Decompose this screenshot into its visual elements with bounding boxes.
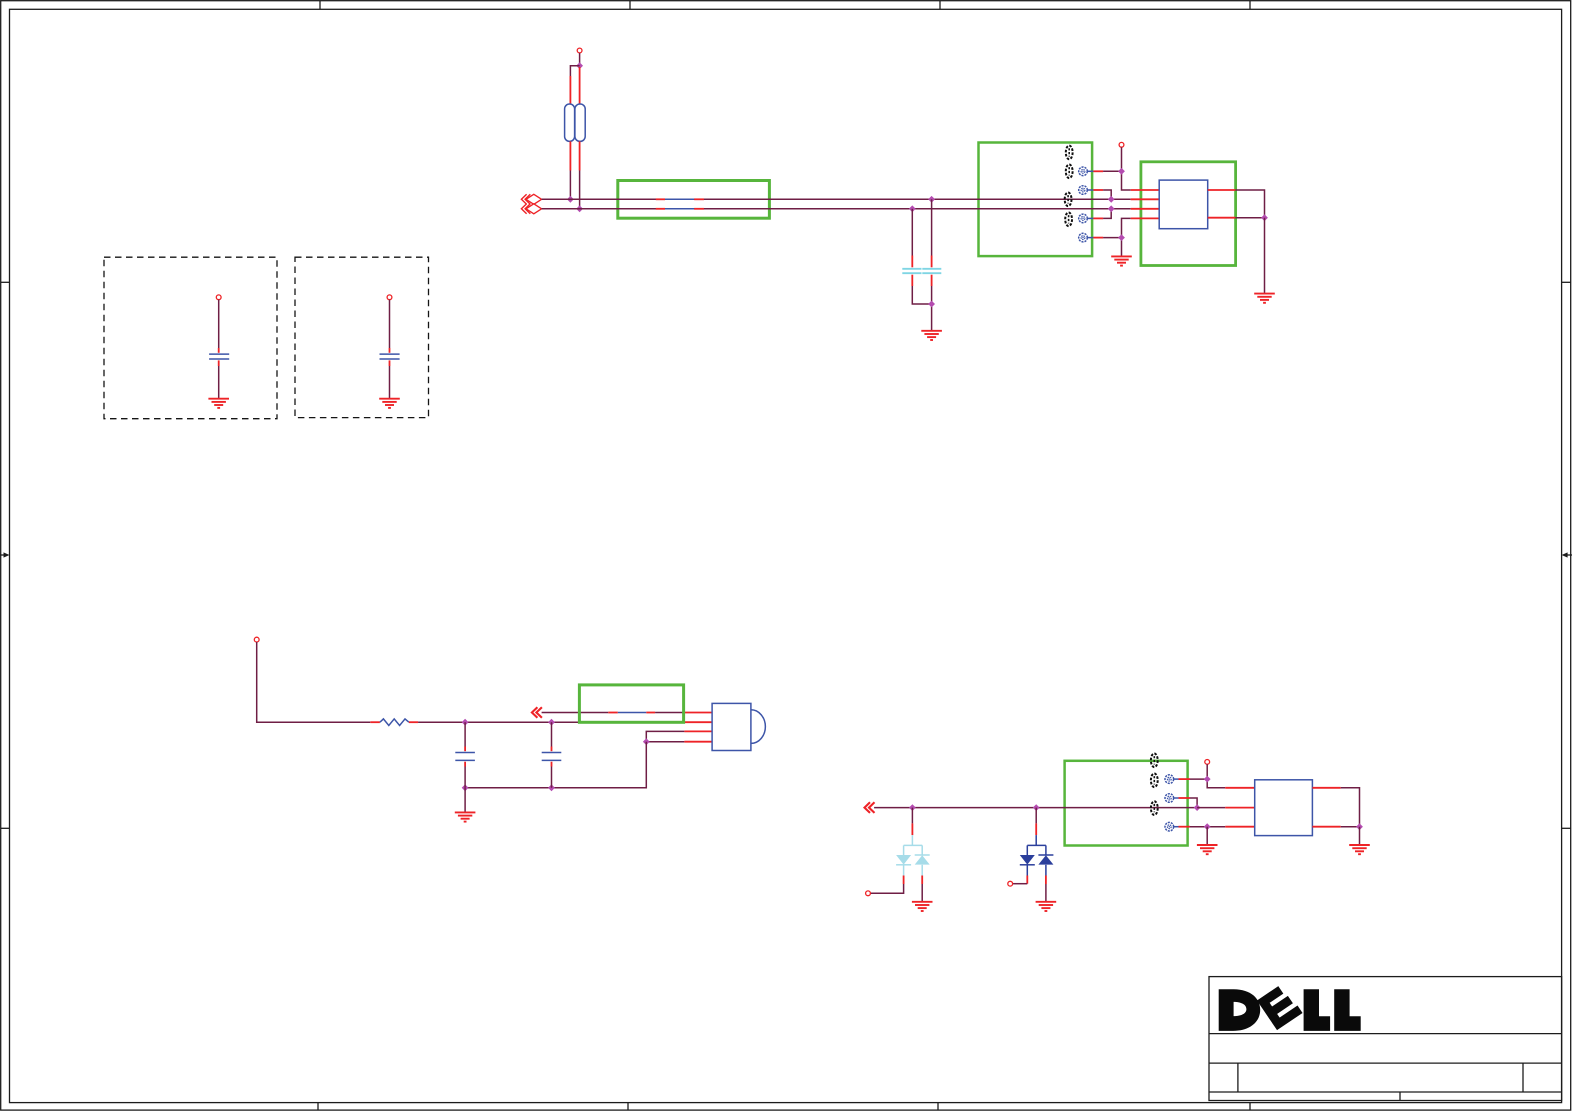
red lead PC5: [1179, 778, 1191, 780]
zone tick top 4: [1249, 1, 1251, 10]
ground G3: [1254, 294, 1275, 303]
wire PC1 to power rail: [1103, 170, 1121, 172]
capacitor C4 stem: [551, 722, 553, 746]
wire P3 to resistor: [257, 642, 371, 722]
capacitor C1 plates: [902, 268, 921, 270]
resistor RP1b body: [665, 208, 694, 210]
wire to ground G4: [464, 788, 466, 813]
zone tick bottom 4: [1249, 1103, 1251, 1111]
ground G5: [912, 902, 933, 911]
wire bus lower: [874, 807, 1197, 809]
dashed ellipse E4: [1065, 213, 1072, 227]
capacitor C6 plates: [380, 353, 400, 355]
title block line 3: [1209, 1091, 1562, 1093]
green box A (resistor pack): [618, 181, 770, 219]
red lead Q1 pin1: [684, 712, 712, 714]
capacitor C4 plates: [542, 752, 562, 754]
capacitor C3 plates: [455, 752, 475, 754]
node junction J16: [548, 784, 555, 791]
red lead IC1 pin4: [1131, 217, 1160, 219]
power symbol P2: [1119, 142, 1124, 147]
capacitor C1 red lead bottom: [911, 275, 913, 286]
diode D1a bottom lead: [903, 865, 905, 876]
pin circle PC2: [1079, 186, 1094, 195]
wire U1 right pin2: [1235, 217, 1264, 219]
ground G-C6: [379, 399, 400, 408]
dashed ellipse E6: [1151, 774, 1158, 788]
capacitor C3 red lead bottom: [464, 762, 466, 767]
zone tick left upper: [1, 281, 10, 283]
red lead Q1 pin4: [684, 741, 712, 743]
dashed box DNI-2: [295, 257, 429, 417]
capacitor C4 red lead bottom: [551, 762, 553, 767]
wire gnd rail vertical: [1122, 218, 1131, 256]
wire J21 to ground: [1206, 827, 1208, 845]
node junction J13: [548, 719, 555, 726]
zone tick left lower: [1, 827, 10, 829]
IC U2: [1255, 780, 1313, 836]
diode D2b: [1038, 855, 1053, 865]
pin circle PC4: [1079, 233, 1094, 242]
off-page connector OP2: [521, 204, 541, 214]
capacitor C3 stem: [464, 722, 466, 746]
diode D1a: [896, 855, 911, 865]
node junction J14: [643, 738, 650, 745]
resistor pack RP1a red lead right: [694, 198, 704, 200]
wire D1a to stub: [870, 884, 903, 893]
red lead PC2: [1093, 189, 1103, 191]
node junction J5: [909, 205, 916, 212]
center arrow right: [1562, 552, 1572, 557]
red lead Q1 pin3: [684, 730, 712, 732]
wire bus to IC2 pin2: [1197, 807, 1225, 809]
zone tick top 2: [629, 1, 631, 10]
power symbol P4: [1205, 760, 1210, 765]
TVS D2 stem red: [1035, 823, 1037, 835]
zone tick bottom 2: [627, 1103, 629, 1111]
node junction J2: [567, 196, 574, 203]
node junction J10: [1118, 234, 1125, 241]
resistor pack RP1b red lead right: [694, 208, 704, 210]
wire PC6 down to bus: [1190, 798, 1197, 808]
capacitor C3 red lead: [464, 747, 466, 752]
red lead U1 right pin2: [1208, 217, 1236, 219]
zone tick right lower: [1562, 827, 1571, 829]
red lead PC7: [1179, 826, 1191, 828]
zone tick bottom 3: [937, 1103, 939, 1111]
ground G-C5: [208, 399, 229, 408]
red lead IC1 pin1: [1131, 189, 1160, 191]
capacitor C2 stem: [931, 199, 933, 255]
wire OP3 to resistor pack: [542, 712, 609, 714]
dashed ellipse E5: [1151, 754, 1158, 768]
wire C5 bottom: [218, 366, 220, 399]
red lead U2 right pin2: [1312, 826, 1340, 828]
pin circle PC3: [1079, 214, 1094, 223]
wire P4 rail: [1207, 764, 1225, 788]
resistor R1: [380, 719, 409, 726]
red lead PC1: [1093, 170, 1103, 172]
wire bottom rail: [465, 742, 646, 788]
zone tick bottom 1: [317, 1103, 319, 1111]
Dell logo: [1219, 983, 1361, 1031]
resistor pack RP1b red lead: [656, 208, 665, 210]
resistor pack RP1a red lead: [656, 198, 665, 200]
TVS D1 stem: [911, 808, 913, 824]
resistor RP1a body: [665, 198, 694, 200]
capacitor C2 red lead: [931, 256, 933, 268]
capacitor C4 red lead: [551, 747, 553, 752]
fuse F1 capsule: [565, 104, 575, 141]
wire C6 top: [389, 300, 391, 348]
wire PC7 rail: [1190, 826, 1225, 828]
node junction J17: [909, 804, 916, 811]
fuse F2 capsule: [575, 104, 585, 141]
stub terminal T2: [1008, 881, 1013, 886]
pin circle PC5: [1165, 775, 1179, 784]
node junction J11: [1261, 214, 1268, 221]
node junction J20: [1204, 776, 1211, 783]
wire PC4 to gnd rail: [1103, 237, 1121, 239]
wire FB2 to bus2: [579, 171, 581, 209]
red lead C6 bottom: [389, 360, 391, 366]
dashed box DNI-1: [104, 257, 277, 419]
ground G4: [455, 812, 476, 821]
title block bottom strip divider: [1399, 1092, 1401, 1101]
TVS D2 stem: [1035, 808, 1037, 824]
title block line 2: [1209, 1062, 1562, 1064]
green box B (connector block): [979, 143, 1093, 257]
pin circle PC7: [1165, 822, 1179, 831]
TVS D1 stem red: [911, 823, 913, 835]
wire Q1 pin4: [646, 741, 684, 743]
ground G1: [921, 331, 942, 340]
pin circle PC1: [1079, 167, 1094, 176]
node junction J3: [576, 205, 583, 212]
ground G2: [1111, 256, 1132, 265]
wire red lead FB1 top: [569, 76, 571, 105]
node junction J15: [462, 784, 469, 791]
green box C (IC block): [1141, 162, 1236, 266]
title block line under logo: [1209, 1033, 1562, 1035]
ground G6: [1036, 902, 1057, 911]
red lead PC4: [1093, 237, 1103, 239]
red lead Q1 pin2: [684, 721, 712, 723]
node junction J18: [1033, 804, 1040, 811]
title block outline: [1209, 977, 1562, 1101]
capacitor C1 stem: [911, 209, 913, 256]
wire D2b to ground: [1045, 884, 1047, 902]
wire Q1 pin3: [646, 731, 684, 741]
wire C4 bottom: [551, 767, 553, 788]
IC U1: [1159, 180, 1208, 229]
wire R1 to Q1 pin2: [418, 721, 684, 723]
zone tick right upper: [1562, 281, 1571, 283]
power symbol P5: [216, 295, 221, 300]
diode D1b: [915, 855, 930, 865]
title block divider left: [1237, 1063, 1239, 1092]
node junction J8: [1108, 196, 1115, 203]
diode D1b bottom lead: [921, 865, 923, 876]
wire C3 bottom: [464, 767, 466, 788]
diode D2a bottom lead: [1026, 865, 1028, 876]
red lead U2 right pin1: [1312, 787, 1340, 789]
TVS D2 top rail: [1027, 835, 1046, 855]
node junction J12: [462, 719, 469, 726]
capacitor C2 plates: [922, 268, 941, 270]
wire P1 stem: [579, 53, 581, 66]
stub terminal T1: [866, 891, 871, 896]
green box E (connector block): [1065, 761, 1188, 846]
red lead R1 right: [409, 721, 418, 723]
zone tick top 3: [939, 1, 941, 10]
ground G8: [1349, 845, 1370, 854]
dashed ellipse E2: [1066, 165, 1073, 179]
red lead C5: [218, 348, 220, 353]
wire D1b to ground: [921, 884, 923, 902]
red lead IC1 pin3: [1131, 208, 1160, 210]
resistor RP2 red lead left: [608, 712, 618, 714]
red lead U1 right pin1: [1208, 189, 1236, 191]
node junction J22: [1356, 823, 1363, 830]
wire red lead FB2 bottom: [579, 141, 581, 170]
wire branch left: [570, 66, 579, 76]
wire C6 bottom: [389, 366, 391, 399]
wire to ground G8: [1359, 827, 1361, 845]
ground G7: [1197, 845, 1218, 854]
wire bus2: [542, 208, 1131, 210]
wire U2 right pin2: [1341, 826, 1360, 828]
capacitor C2 red lead bottom: [931, 275, 933, 286]
red lead IC2 pin3: [1225, 826, 1254, 828]
wire FB1 to bus1: [569, 171, 571, 200]
power symbol P1: [577, 48, 582, 53]
wire U1 right pin1: [1235, 190, 1264, 218]
pin circle PC6: [1165, 794, 1179, 803]
wire PC5 to power rail: [1190, 778, 1207, 780]
off-page connector OP3: [532, 707, 542, 718]
wire C5 top: [218, 300, 220, 348]
node junction J7: [1118, 168, 1125, 175]
red lead IC2 pin1: [1225, 787, 1254, 789]
power symbol P6: [387, 295, 392, 300]
red lead IC1 pin2: [1131, 198, 1160, 200]
wire bus1: [542, 198, 1131, 200]
TVS D1 top rail: [904, 835, 923, 855]
red lead C5 bottom: [218, 360, 220, 366]
wire red lead FB1 bottom: [569, 141, 571, 170]
node junction J19: [1194, 804, 1201, 811]
wire PC2 down to bus1: [1103, 190, 1111, 199]
wire P2 rail: [1122, 147, 1131, 190]
wire PC3 up to bus2: [1103, 209, 1111, 219]
red lead IC2 pin2: [1225, 807, 1254, 809]
dashed ellipse E3: [1065, 193, 1072, 207]
capacitor C5 plates: [209, 353, 229, 355]
wire U2 right pin1: [1341, 788, 1360, 827]
resistor RP2 red lead right: [646, 712, 655, 714]
wire C2 bottom: [931, 286, 933, 331]
center arrow left: [0, 552, 10, 557]
node junction J4: [928, 196, 935, 203]
power symbol P3: [254, 637, 259, 642]
red lead PC3: [1093, 217, 1103, 219]
dashed ellipse E1: [1066, 146, 1073, 160]
wire D2a to stub: [1013, 883, 1028, 885]
wire to ground G3: [1264, 218, 1266, 294]
dashed ellipse E7: [1151, 801, 1158, 815]
wire red lead FB2 top: [579, 67, 581, 105]
red lead PC6: [1179, 797, 1191, 799]
title block divider right: [1522, 1063, 1524, 1092]
capacitor C1 red lead: [911, 256, 913, 268]
zone tick top 1: [319, 1, 321, 10]
off-page connector OP1: [521, 194, 541, 204]
node junction J6: [928, 301, 935, 308]
off-page connector OP4: [865, 802, 875, 813]
node junction J1: [576, 62, 583, 69]
green box D (resistor): [579, 685, 683, 722]
wire C1 bottom: [912, 286, 931, 304]
IR receiver Q1: [712, 703, 765, 750]
diode D2a: [1020, 855, 1035, 865]
red lead R1 left: [370, 721, 380, 723]
red lead C6: [389, 348, 391, 353]
node junction J21: [1204, 823, 1211, 830]
resistor RP2 body: [618, 712, 647, 714]
node junction J9: [1108, 205, 1115, 212]
wire RP2 to Q1 pin1: [655, 712, 684, 714]
diode D2b bottom lead: [1045, 865, 1047, 876]
